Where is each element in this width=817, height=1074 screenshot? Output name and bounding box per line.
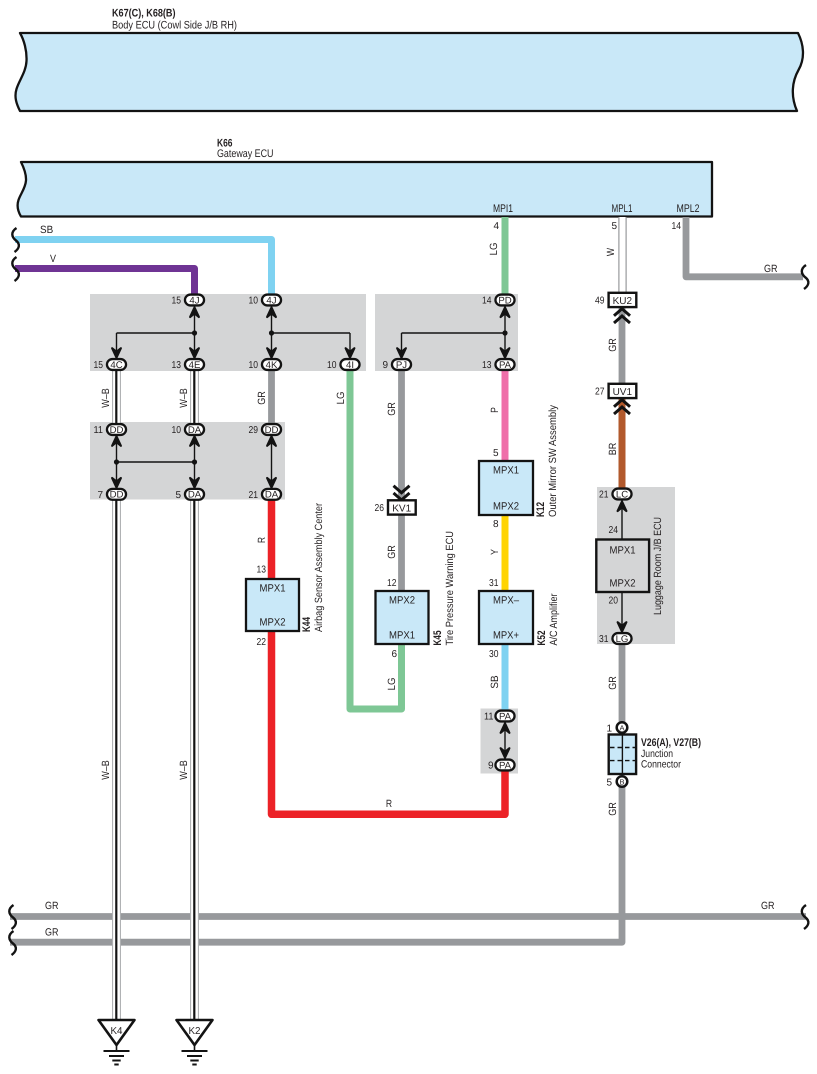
svg-text:GR: GR (45, 900, 59, 912)
svg-text:11: 11 (484, 712, 494, 723)
arrow into LG31 (618, 622, 627, 632)
svg-text:PJ: PJ (396, 360, 407, 371)
svg-text:GR: GR (607, 676, 619, 690)
svg-text:49: 49 (595, 296, 605, 307)
svg-text:MPL1: MPL1 (612, 203, 633, 215)
wire GR KU2 to UV1 (619, 306, 626, 385)
svg-text:MPX2: MPX2 (493, 501, 519, 513)
connector 4J pin 15 (185, 295, 204, 306)
junction dot (114, 459, 119, 464)
svg-text:DA: DA (188, 490, 202, 501)
svg-text:13: 13 (482, 360, 492, 371)
svg-text:31: 31 (599, 634, 609, 645)
wire W-B 4E to DA10 (190, 371, 199, 425)
connector DD pin 7 (107, 489, 126, 500)
svg-text:4C: 4C (110, 360, 122, 371)
svg-text:5: 5 (611, 221, 617, 232)
svg-text:Y: Y (489, 549, 501, 555)
svg-text:W: W (605, 248, 617, 256)
junction dot (269, 330, 274, 335)
svg-text:21: 21 (599, 490, 609, 501)
connector PD pin 14 (495, 295, 514, 306)
svg-text:24: 24 (609, 525, 619, 536)
svg-text:GR: GR (761, 900, 775, 912)
svg-text:30: 30 (489, 649, 499, 660)
arrow into DD7 (112, 478, 121, 488)
arrow into 4I (346, 348, 355, 358)
wire Y K12 to K52 (502, 514, 509, 592)
svg-text:W–B: W–B (178, 388, 190, 408)
svg-text:SB: SB (40, 224, 53, 236)
wire W-B from DD7 to ground K4 (112, 499, 121, 1020)
svg-text:MPX–: MPX– (493, 595, 519, 607)
svg-text:7: 7 (97, 490, 103, 501)
svg-text:W–B: W–B (178, 760, 190, 780)
svg-text:Luggage Room J/B ECU: Luggage Room J/B ECU (652, 517, 664, 615)
wire 4J-right to 4K/4I tree (271, 305, 273, 359)
arrow into PA9 (501, 748, 510, 758)
component MPX box Luggage Room J/B ECU (596, 517, 664, 615)
ECU band K67/K68 Body ECU (15, 33, 802, 111)
svg-text:10: 10 (249, 296, 259, 307)
svg-text:GR: GR (386, 402, 398, 416)
svg-text:SB: SB (489, 675, 501, 688)
svg-text:GR: GR (607, 338, 619, 352)
svg-text:R: R (386, 798, 393, 810)
arrow into DD11 (112, 436, 121, 446)
wire SB from band (15, 240, 272, 298)
wire GR LG31 to A (619, 644, 626, 723)
connector LC pin 21 (612, 489, 631, 500)
svg-text:GR: GR (386, 545, 398, 559)
wire GR MPL2 to right edge (686, 217, 803, 277)
svg-text:4E: 4E (189, 360, 201, 371)
junction dot (192, 459, 197, 464)
wire R K44 to PA9 (272, 630, 506, 814)
splice UV1 pin 27 (595, 384, 636, 414)
squiggle left GR1 (9, 905, 16, 929)
wire R DA21 to K44 (268, 499, 276, 580)
ground K4 (99, 1020, 135, 1065)
connector 4E pin 13 (185, 359, 204, 370)
svg-text:DD: DD (110, 425, 124, 436)
wire W MPL1 to KU2 (618, 217, 626, 294)
svg-text:BR: BR (607, 442, 619, 455)
wire GR KV1 to K45 (398, 514, 405, 592)
svg-text:Tire Pressure Warning ECU: Tire Pressure Warning ECU (444, 531, 456, 646)
svg-text:KU2: KU2 (613, 296, 633, 307)
arrow into 4J right (267, 308, 276, 318)
svg-text:DA: DA (188, 425, 202, 436)
connector PJ pin 9 (392, 359, 411, 370)
svg-text:K2: K2 (189, 1026, 201, 1037)
svg-text:DA: DA (265, 490, 279, 501)
connector DA pin 5 (185, 489, 204, 500)
ECU band K66 Gateway ECU (18, 162, 712, 217)
svg-text:MPX+: MPX+ (493, 630, 519, 642)
svg-text:K12: K12 (535, 502, 547, 517)
svg-text:10: 10 (249, 360, 259, 371)
wire SB K52 to PA11 (502, 642, 509, 712)
component K12 Outer Mirror SW Assembly (479, 404, 559, 530)
wire GR bottom horizontal 2 + vertical from B (10, 784, 622, 942)
svg-text:MPX1: MPX1 (610, 545, 636, 557)
svg-text:15: 15 (172, 296, 182, 307)
arrow into 4E (190, 348, 199, 358)
svg-text:LC: LC (616, 489, 628, 500)
arrow into 4J left (190, 308, 199, 318)
svg-text:LG: LG (616, 634, 629, 645)
svg-text:DD: DD (110, 490, 124, 501)
svg-text:K44: K44 (301, 616, 313, 632)
wire LC to MPX luggage (621, 500, 623, 540)
svg-text:10: 10 (327, 360, 337, 371)
svg-text:22: 22 (257, 637, 267, 648)
svg-text:MPX1: MPX1 (493, 465, 519, 477)
svg-text:P: P (489, 407, 501, 413)
svg-text:Body ECU (Cowl Side J/B RH): Body ECU (Cowl Side J/B RH) (112, 20, 237, 32)
wire BR UV1 to LC (619, 398, 626, 490)
svg-text:13: 13 (172, 360, 182, 371)
svg-text:MPX1: MPX1 (389, 630, 415, 642)
arrow into 4K (267, 348, 276, 358)
connector DA pin 21 (262, 489, 281, 500)
svg-text:GR: GR (256, 391, 268, 405)
svg-text:5: 5 (493, 448, 499, 459)
svg-text:31: 31 (489, 578, 499, 589)
squiggle SB (12, 228, 19, 252)
svg-text:27: 27 (595, 387, 605, 398)
wire PD to PJ/PA tree (504, 305, 506, 359)
wire P PA13 to K12 (502, 370, 509, 462)
svg-text:4J: 4J (189, 295, 199, 306)
svg-text:5: 5 (175, 490, 181, 501)
wire MPX luggage to LG31 (621, 592, 623, 633)
connector box lower left (90, 422, 285, 500)
junction connector V26/V27 (606, 722, 701, 788)
svg-text:K67(C), K68(B): K67(C), K68(B) (112, 8, 176, 20)
svg-text:26: 26 (375, 503, 385, 514)
splice KU2 pin 49 (595, 293, 636, 323)
wire LG 4I to K45 (350, 371, 402, 709)
svg-text:MPX2: MPX2 (389, 595, 415, 607)
svg-text:PA: PA (499, 711, 512, 722)
svg-text:GR: GR (45, 927, 59, 939)
connector PA pin 11 (495, 711, 514, 722)
svg-text:6: 6 (391, 649, 397, 660)
splice KV1 pin 26 (375, 486, 416, 515)
connector box PA pair (481, 709, 519, 774)
wire GR bottom horizontal 1 (10, 913, 806, 920)
svg-text:PA: PA (499, 360, 512, 371)
squiggle left GR2 (9, 931, 16, 955)
ground K2 (177, 1020, 213, 1065)
connector 4J pin 10 (262, 295, 281, 306)
svg-text:K45: K45 (432, 631, 444, 646)
svg-text:LG: LG (386, 678, 398, 691)
wire GR 4K to DD29 (268, 371, 275, 426)
svg-text:KV1: KV1 (392, 503, 411, 514)
svg-text:LG: LG (488, 243, 500, 256)
svg-text:MPX2: MPX2 (260, 617, 286, 629)
connector box J/B upper middle (375, 294, 518, 371)
arrow into PA (501, 348, 510, 358)
svg-text:Airbag Sensor Assembly Center: Airbag Sensor Assembly Center (313, 503, 325, 632)
wire W-B 4C to DD11 (112, 371, 121, 425)
component K44 Airbag Sensor Assembly Center (246, 503, 325, 648)
svg-text:9: 9 (488, 761, 494, 772)
connector DD pin 29 (262, 424, 281, 435)
svg-text:5: 5 (606, 778, 612, 789)
svg-text:14: 14 (672, 221, 682, 232)
wire DD29 to DA21 (271, 435, 273, 489)
svg-text:V: V (50, 253, 56, 265)
wire 4J-left to 4C/4E tree (194, 305, 196, 359)
wire W-B from DA5 to ground K2 (190, 499, 199, 1020)
arrow into DD29 (267, 436, 276, 446)
arrow into PA11 (501, 723, 510, 733)
connector 4I pin 10 (340, 359, 359, 370)
svg-text:15: 15 (94, 360, 104, 371)
wire DD11 to DD7 (116, 435, 118, 489)
connector DA pin 10 (185, 424, 204, 435)
svg-text:11: 11 (94, 425, 104, 436)
wire LG MPI1 to PD (502, 217, 509, 297)
connector LG pin 31 (612, 633, 631, 644)
svg-text:W–B: W–B (100, 388, 112, 408)
svg-text:12: 12 (387, 578, 397, 589)
svg-text:A: A (619, 723, 624, 732)
svg-text:GR: GR (607, 802, 619, 816)
svg-text:R: R (256, 537, 268, 544)
connector 4K pin 10 (262, 359, 281, 370)
component K45 Tire Pressure Warning ECU (376, 531, 457, 660)
svg-text:PA: PA (499, 760, 512, 771)
wire crosslink DD-DA (117, 461, 195, 463)
arrow into PD (501, 308, 510, 318)
svg-text:UV1: UV1 (613, 387, 633, 398)
svg-text:Gateway ECU: Gateway ECU (217, 148, 274, 160)
component K52 A/C Amplifier (479, 578, 560, 660)
svg-text:Outer Mirror SW Assembly: Outer Mirror SW Assembly (547, 404, 559, 517)
arrow into 4C (112, 348, 121, 358)
svg-text:4K: 4K (266, 360, 278, 371)
junction dot (192, 330, 197, 335)
svg-text:20: 20 (609, 596, 619, 607)
svg-text:13: 13 (257, 565, 267, 576)
box Luggage Room J/B ECU (597, 487, 675, 644)
arrow into LC (618, 502, 627, 512)
svg-text:MPL2: MPL2 (677, 203, 700, 215)
svg-text:4J: 4J (266, 295, 276, 306)
svg-text:4: 4 (493, 221, 499, 232)
svg-text:8: 8 (493, 519, 499, 530)
svg-text:DD: DD (265, 425, 279, 436)
arrow into DA21 (267, 478, 276, 488)
svg-text:B: B (619, 777, 624, 786)
svg-text:9: 9 (382, 360, 388, 371)
svg-text:Connector: Connector (641, 759, 681, 771)
connector DD pin 11 (107, 424, 126, 435)
connector PA pin 9 (495, 760, 514, 771)
svg-text:1: 1 (606, 724, 612, 735)
svg-text:LG: LG (335, 392, 347, 405)
junction dot (502, 330, 507, 335)
svg-text:21: 21 (249, 490, 259, 501)
wire DA10 to DA5 (194, 435, 196, 489)
squiggle GR right (802, 265, 809, 289)
arrow into DA10 (190, 436, 199, 446)
squiggle V (12, 257, 19, 281)
svg-text:4I: 4I (346, 360, 354, 371)
svg-text:W–B: W–B (100, 760, 112, 780)
svg-text:29: 29 (249, 425, 259, 436)
connector box J/B upper left (90, 294, 366, 371)
svg-text:MPI1: MPI1 (493, 203, 513, 215)
wire GR PJ to KV1 (398, 370, 405, 500)
wire PA11 to PA9 (504, 722, 506, 759)
svg-text:PD: PD (498, 295, 511, 306)
svg-text:K52: K52 (536, 631, 548, 646)
svg-text:MPX1: MPX1 (260, 583, 286, 595)
arrow into PJ (397, 348, 406, 358)
arrow into DA5 (190, 478, 199, 488)
wire V from band (15, 269, 195, 298)
svg-text:A/C Amplifier: A/C Amplifier (548, 593, 560, 645)
svg-text:K4: K4 (111, 1026, 123, 1037)
squiggle right GR1 (802, 905, 809, 929)
svg-text:14: 14 (482, 296, 492, 307)
svg-text:MPX2: MPX2 (610, 578, 636, 590)
connector PA pin 13 (495, 359, 514, 370)
svg-text:GR: GR (764, 263, 778, 275)
svg-text:10: 10 (172, 425, 182, 436)
connector 4C pin 15 (107, 359, 126, 370)
